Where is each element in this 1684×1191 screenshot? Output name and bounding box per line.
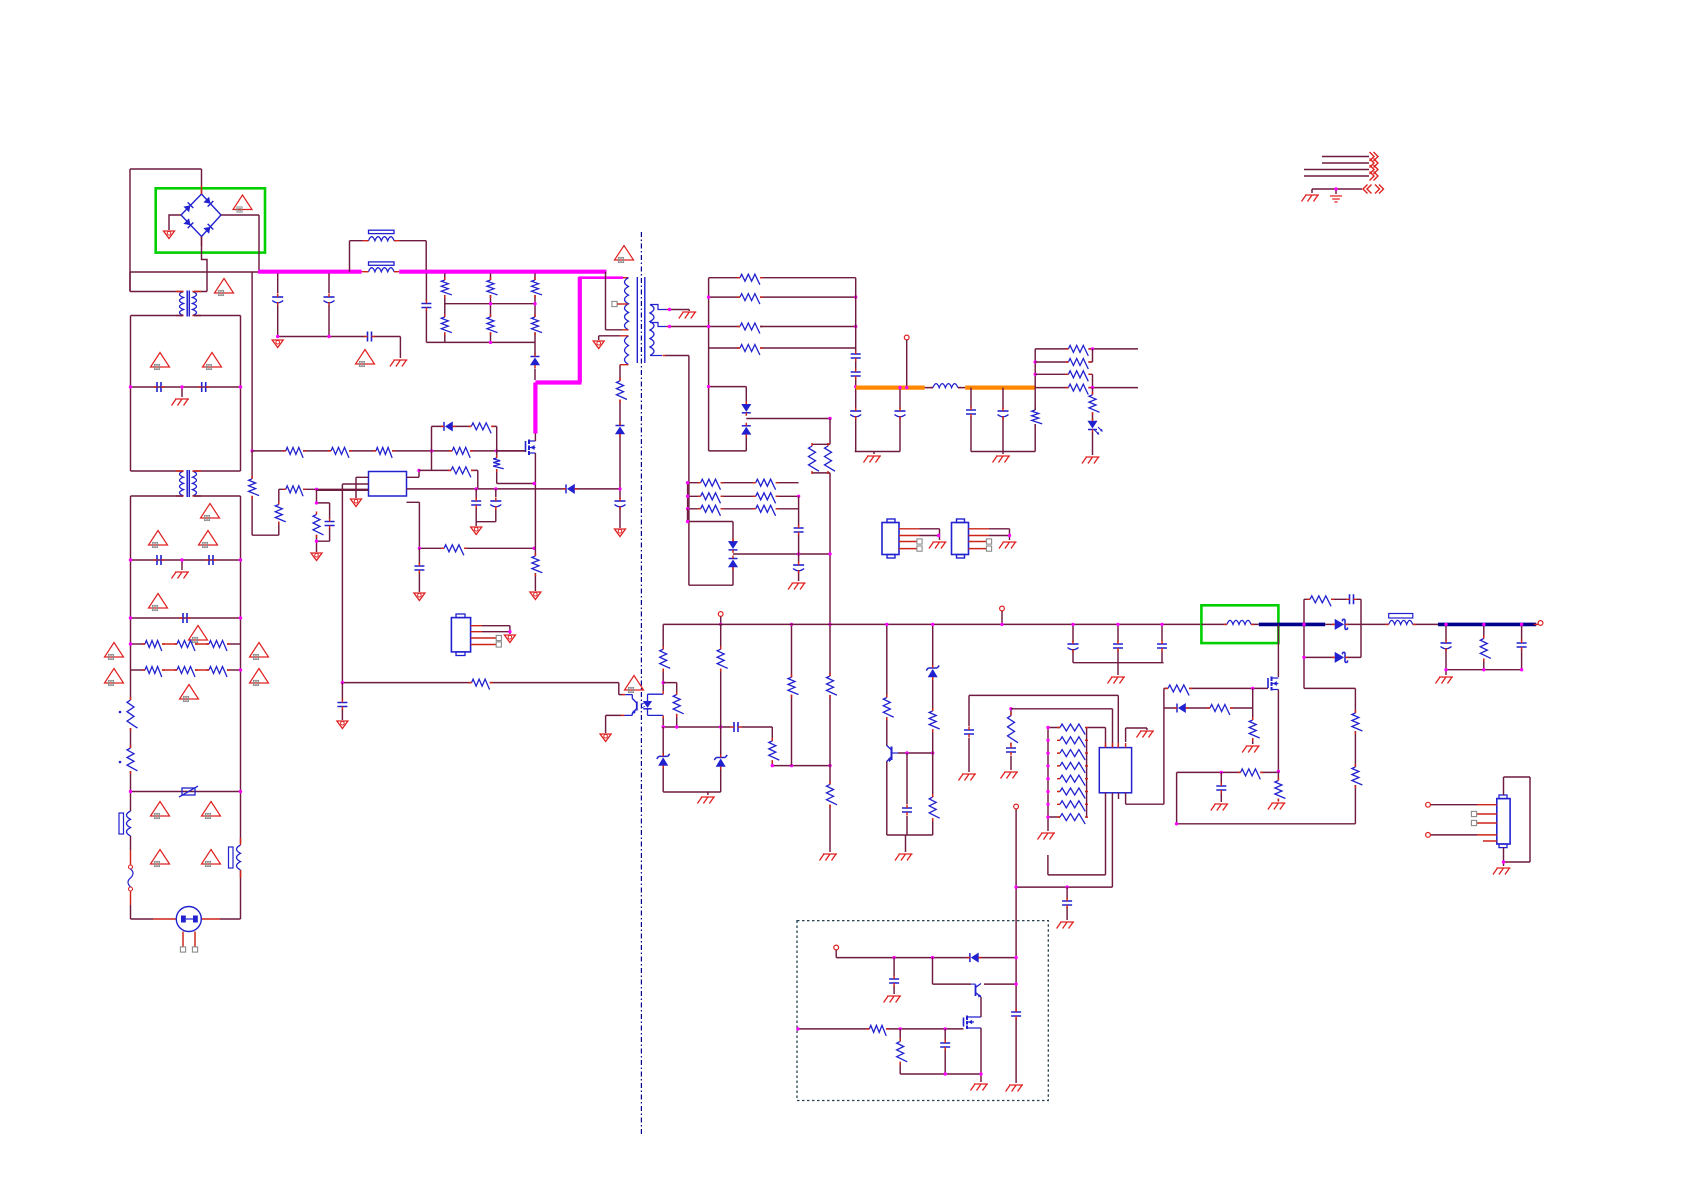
junction dot bus x426	[425, 270, 428, 273]
capacitor x1221	[1216, 786, 1226, 790]
warning triangle row1 right outside	[250, 643, 269, 658]
wire orange gap	[925, 387, 966, 389]
wire divider column 1	[444, 272, 446, 343]
wire bulk bottom line	[278, 337, 401, 359]
warning triangle box2 left	[149, 531, 168, 546]
diode standby	[969, 953, 971, 962]
warning triangle row1 left outside	[105, 643, 124, 658]
junction dot x830 y418	[828, 417, 831, 420]
warning triangle box1 left	[151, 353, 170, 368]
wire rung3 right	[760, 326, 856, 328]
blue dot left b	[119, 761, 122, 764]
junction dots y765	[771, 764, 774, 767]
junction dot y470	[417, 469, 420, 472]
resistor left rail upper	[127, 700, 138, 728]
wire final filter	[1446, 624, 1522, 675]
inductor L bypass top	[369, 237, 395, 241]
twin parallel resistors x820	[812, 419, 830, 473]
resistor row1 c	[209, 641, 227, 652]
junction dots y1074	[944, 1072, 947, 1075]
resistor gate2 pulldown	[1249, 720, 1260, 738]
capacitor CY row2 left	[157, 555, 161, 565]
resistor rung3	[740, 323, 760, 334]
wire U1 pin right3	[407, 502, 420, 548]
resistor fb x830 upper	[827, 676, 838, 695]
polarized capacitor bulk mid	[324, 296, 335, 298]
wire out row1 y348	[1035, 348, 1138, 350]
off-page wire 3	[1304, 169, 1369, 171]
wire Q1 source	[534, 453, 536, 548]
junction dots divider	[443, 270, 446, 273]
wire row y887	[1016, 886, 1112, 888]
wire U1 pin left2 long	[342, 484, 368, 682]
wire opto anode right	[662, 683, 664, 691]
wire bridge left to ground	[169, 215, 181, 230]
resistor fb chain b	[1352, 767, 1363, 785]
connector CN-A	[882, 523, 899, 555]
resistor lrung3 a	[701, 505, 721, 516]
wire ctrl x1011	[1010, 709, 1012, 770]
off-page wire 2	[1322, 162, 1369, 164]
wire U4 bottom pins	[1048, 793, 1164, 887]
wire x1176 vertical	[1176, 772, 1178, 823]
wire U1 pin left3	[317, 489, 369, 491]
chassis ground cap row2	[172, 572, 190, 579]
chassis ground cap row1	[172, 399, 190, 406]
wire x1016 long vertical	[1015, 809, 1017, 1083]
varistor RV1	[182, 788, 195, 795]
wire opto emitter ground	[606, 715, 621, 733]
polarized capacitor vcc b	[490, 500, 501, 502]
wire standby base row	[933, 958, 1017, 985]
output pin circle x906	[904, 335, 909, 340]
CN2 long wire pin1	[1431, 804, 1478, 806]
polarized capacitor out b	[895, 410, 906, 412]
wire lrung2	[688, 495, 799, 497]
capacitor CX row1 left	[157, 382, 161, 392]
wire aux chain	[619, 365, 621, 528]
zener Z1	[662, 727, 664, 792]
junction dots y548	[418, 547, 421, 550]
signal ground vcc	[471, 527, 482, 535]
navy thick segment 2	[1438, 623, 1536, 627]
junction dot aux	[618, 487, 621, 490]
wire bridge right output	[221, 215, 259, 271]
off-page wire 4	[1304, 175, 1369, 177]
chassis ground x830	[820, 854, 838, 861]
wire lrung3	[688, 508, 799, 510]
wire out row3 y374	[1035, 374, 1092, 387]
wire reg cap x907	[906, 753, 908, 835]
capacitor series a x855	[851, 354, 861, 358]
blue dot left a	[119, 711, 122, 714]
pin circle x1002	[1000, 606, 1005, 611]
resistor fb x676	[673, 695, 684, 714]
chassis ground x1011	[1001, 772, 1019, 779]
junction dot x906	[905, 386, 908, 389]
capacitor snubber2	[1350, 594, 1354, 604]
off-page ground wire	[1312, 189, 1362, 194]
resistor divider bottom 3	[532, 317, 543, 333]
wire varistor row	[131, 791, 241, 793]
wire cap trio	[1073, 624, 1164, 675]
chassis ground CN-A	[929, 542, 947, 549]
wire rung T1 bottom	[131, 315, 241, 317]
warning triangle opto	[625, 676, 644, 691]
wire x252 lower loop	[252, 451, 286, 535]
wire rail x687 lower	[687, 483, 689, 522]
warning triangle box2 right	[199, 531, 218, 546]
transformer T3 main	[625, 278, 629, 330]
resistor row451 b	[331, 447, 349, 458]
green highlight box output	[1201, 605, 1278, 643]
transistor Q regulator	[891, 747, 893, 761]
wire out caps c d	[971, 388, 1035, 454]
zener regulator	[926, 666, 939, 671]
wire standby row y957	[836, 957, 1016, 959]
capacitor CX row3	[183, 613, 187, 623]
AC plug J1	[176, 907, 201, 932]
diode snubber to drain	[531, 356, 540, 358]
capacitor out c	[966, 410, 976, 414]
junction dot out row4	[1091, 386, 1094, 389]
CN2 pin wires	[1477, 805, 1497, 841]
capacitor x329	[325, 522, 335, 526]
wire aux winding top to ground	[599, 336, 620, 340]
resistor divider bottom 1	[441, 317, 452, 333]
junction dot tap2	[668, 325, 671, 328]
chassis ground gate2	[1242, 746, 1260, 753]
earth ground off-page	[1330, 196, 1342, 202]
off-page wire 1	[1322, 156, 1369, 158]
resistor lrung2 a	[701, 493, 721, 504]
junction dot x1011	[1009, 707, 1012, 710]
junction dot bus x791	[790, 623, 793, 626]
wire secondary tap3	[650, 355, 662, 357]
wire fb divider row y772	[1177, 771, 1279, 773]
secondary bus y624	[663, 623, 1438, 625]
resistor row451 c	[376, 447, 392, 458]
pin circle x1016	[1014, 804, 1019, 809]
resistor x278 vertical	[275, 505, 286, 522]
wire x342 cap ground	[341, 683, 343, 720]
junction dots y887	[1014, 885, 1017, 888]
wire gate2 pulldown	[1252, 708, 1254, 744]
chassis ground y360	[390, 360, 408, 367]
capacitor x1067	[1062, 901, 1072, 905]
pin circle x720	[718, 612, 723, 617]
junction dot bus x720	[719, 623, 722, 626]
junction dots y727	[662, 725, 665, 728]
fuse F1	[129, 865, 133, 869]
wire gate2 left rail	[1163, 688, 1165, 804]
connector CN-B	[952, 523, 969, 555]
junction dots cap row3	[129, 616, 132, 619]
junction dot x252 row451	[250, 449, 253, 452]
wire standby source row	[900, 1028, 981, 1082]
capacitor reg x907	[902, 808, 912, 812]
resistor row1 b	[177, 641, 195, 652]
signal ground aux cap	[615, 529, 626, 537]
wire x316 RC to ground	[317, 489, 330, 552]
resistor fb x663	[660, 649, 671, 668]
wire standby bjt emitter	[980, 997, 982, 1016]
capacitor CY row2 right	[209, 555, 213, 565]
junction dots diode block	[1302, 623, 1305, 626]
wire standby gate row	[798, 1028, 964, 1030]
resistor Q2 sense	[1275, 781, 1286, 799]
resistor row451 a	[286, 447, 303, 458]
resistor rung2	[740, 294, 760, 305]
transistor standby	[975, 985, 977, 997]
resistor lrung1 b	[756, 479, 776, 490]
capacitor x342	[337, 703, 347, 707]
resistor lrung1 a	[701, 479, 721, 490]
capacitor ctrl x969	[964, 730, 974, 734]
wire polcap branch b	[899, 388, 901, 452]
connector CN-A squares	[917, 539, 922, 544]
optocoupler U3	[636, 702, 638, 711]
TVS diode pair upper	[709, 387, 747, 451]
CN2 pin1 circle	[1426, 802, 1431, 807]
polarized capacitor x855	[850, 410, 861, 412]
polarized capacitor aux	[615, 500, 626, 502]
wire Q1 drain stub	[534, 434, 536, 442]
resistor standby gate	[869, 1025, 886, 1036]
junction dots rung3	[707, 325, 710, 328]
junction dot x855 orange	[854, 385, 857, 388]
MOSFET Q2 load switch	[1267, 678, 1269, 688]
wire rail x708 upper	[708, 278, 710, 451]
IC U1 PWM controller	[369, 472, 407, 497]
warning triangle lower right	[202, 850, 221, 865]
wire tvs middle row	[746, 418, 830, 420]
junction dots bulk bottom	[276, 335, 279, 338]
plug prong wires	[183, 932, 195, 948]
chassis ground Q3	[971, 1084, 989, 1091]
wire ctrl cap x969	[969, 695, 1118, 772]
CN2 pin4 circle	[1426, 833, 1431, 838]
capacitor standby gate	[940, 1043, 950, 1047]
resistor fb chain a	[1352, 713, 1363, 731]
wire gate divider x496	[496, 451, 498, 484]
output pin circle	[1538, 621, 1543, 626]
diode rect top	[1335, 619, 1344, 629]
warning triangle above T3	[615, 246, 634, 261]
resistor gate2 b	[1210, 705, 1230, 716]
warning triangle near T1	[215, 279, 234, 294]
wire rung T2 top	[131, 470, 241, 472]
wire fb x676 branch	[663, 683, 677, 727]
IC U4 secondary controller	[1099, 748, 1131, 793]
connector CN-B pins	[969, 529, 990, 549]
wire fb x772	[771, 727, 773, 766]
resistor lrung3 b	[756, 505, 776, 516]
inductor left rail	[127, 811, 131, 836]
junction dots x316	[315, 501, 318, 504]
resistor fb x791	[788, 677, 799, 694]
chassis ground off-page	[1302, 195, 1320, 202]
wire fb x791	[791, 624, 793, 765]
signal ground U1	[351, 499, 362, 507]
wire x830 down to bus	[829, 473, 831, 625]
resistor out row2	[1068, 359, 1088, 370]
junction dots cap row2	[129, 558, 132, 561]
MOSFET Q3 standby	[963, 1018, 965, 1027]
junction dot res row2	[239, 668, 242, 671]
chassis ground out ab	[864, 456, 882, 463]
plug prong square left	[180, 947, 185, 952]
resistor lrung2 b	[756, 493, 776, 504]
signal ground opto	[600, 734, 611, 742]
connector CN-A dot	[937, 534, 940, 537]
polarized capacitor final a	[1441, 642, 1452, 644]
junction dot lrung1	[686, 481, 689, 484]
wire gate drive row y683	[342, 683, 618, 695]
junction dots mid row	[797, 552, 800, 555]
signal ground x316	[311, 553, 322, 561]
thin magenta primary feed	[579, 276, 623, 279]
junction dot out row1	[1091, 347, 1094, 350]
wire diode block	[1304, 599, 1361, 688]
wire snubber cap branch	[426, 272, 444, 343]
wire diode pair mid row	[733, 553, 830, 555]
wire diode row y426	[432, 426, 497, 451]
junction dot bus x830	[828, 623, 831, 626]
wire ctrl row to IC	[1011, 709, 1113, 748]
resistor row2 c	[209, 667, 227, 678]
wire rung4 y348	[709, 347, 856, 349]
warning triangle box1 right	[203, 353, 222, 368]
wire reg bottom y835	[887, 835, 933, 852]
junction dots y489	[475, 487, 478, 490]
resistor out row3	[1068, 371, 1088, 382]
diode rect bottom	[1335, 652, 1344, 662]
CN2 squares	[1471, 811, 1476, 816]
resistor left rail lower	[127, 748, 138, 771]
wire standby pulldown R	[899, 1029, 901, 1074]
wire secondary tap2	[650, 323, 667, 327]
wire fb x830 lower	[829, 624, 831, 852]
wire rail x798 caps	[798, 496, 800, 581]
wire bulk cap left drop	[277, 274, 279, 337]
warning triangle under row2	[149, 594, 168, 609]
wire divider column 3	[534, 272, 536, 343]
wire vcc caps	[476, 489, 496, 526]
wire res row1	[131, 643, 146, 645]
capacitor CX row1 right	[202, 382, 206, 392]
resistor row683	[472, 679, 490, 690]
wire sense R ground	[534, 548, 536, 591]
junction dot out b	[898, 386, 901, 389]
resistor gate x496	[493, 458, 504, 469]
wire bypass loop over bus	[350, 241, 427, 272]
wire regulator x932	[932, 624, 934, 835]
capacitor sense	[414, 566, 424, 570]
chassis ground final	[1436, 677, 1454, 684]
junction dot lrung3	[686, 507, 689, 510]
wire sense row y548	[419, 547, 535, 549]
off-page chevron 1	[1370, 152, 1379, 161]
chassis ground standby out	[1006, 1085, 1024, 1092]
wire fb chain x1355	[1354, 688, 1356, 823]
junction dot res row1	[129, 642, 132, 645]
warning triangle box2 top	[201, 504, 220, 519]
connector CN1	[451, 618, 470, 652]
wire cap x1221	[1220, 772, 1222, 802]
green highlight box around bridge	[156, 188, 265, 252]
junction dot x1002	[1000, 623, 1003, 626]
warning triangle row2 right outside	[250, 669, 269, 684]
wire rung1 y277	[709, 277, 856, 279]
wire standby cap x894	[893, 958, 895, 994]
chassis ground CN2	[1493, 868, 1511, 875]
junction dot gate row edge	[796, 1027, 799, 1030]
pin circle standby	[834, 945, 839, 950]
junction dots row451	[430, 449, 433, 452]
resistor fb x720	[717, 649, 728, 668]
resistor row489	[286, 486, 303, 497]
diode pair lower	[688, 509, 733, 585]
capacitor fb y727	[734, 722, 738, 732]
chassis ground CN-B	[999, 542, 1017, 549]
junction dot bus x932	[931, 623, 934, 626]
chassis ground ladder	[1038, 833, 1056, 840]
resistor LED	[1089, 395, 1100, 412]
junction dot fb A	[662, 681, 665, 684]
resistor divider top 1	[441, 280, 452, 295]
signal ground x342	[337, 721, 348, 729]
resistor ladder bank	[1048, 728, 1106, 832]
resistor rung1	[740, 274, 760, 285]
wire snubber top	[1304, 598, 1361, 600]
CN1 squares	[496, 635, 501, 640]
wire diode to magenta corner	[534, 342, 536, 380]
warning triangle above res row	[189, 626, 208, 641]
signal ground aux	[593, 341, 604, 349]
capacitor x798	[794, 528, 804, 532]
connector CN-B squares	[986, 539, 991, 544]
chassis ground Q2 sense	[1268, 803, 1286, 810]
capacitor trio b	[1113, 644, 1123, 648]
off-page chevron 3	[1370, 165, 1379, 174]
wire Q1 gate	[497, 450, 526, 452]
wire U4 gnd right	[1126, 728, 1147, 742]
warning triangle lower left	[151, 850, 170, 865]
junction dots rung2	[707, 295, 710, 298]
resistor fb x772	[769, 741, 780, 760]
resistor row470	[451, 467, 471, 478]
wire row y451	[252, 450, 525, 452]
CN1 pin wires	[471, 626, 496, 645]
resistor bleeder x1035	[1032, 410, 1043, 424]
resistor ctrl x1011	[1008, 716, 1019, 743]
inductor in green box	[1227, 620, 1251, 624]
CN1 dot	[508, 630, 511, 633]
polarized capacitor bulk left	[272, 296, 283, 298]
wire standby out cap	[1015, 1010, 1017, 1012]
junction dot source	[533, 482, 536, 485]
junction dots varistor row	[129, 790, 132, 793]
wire secondary tap1	[650, 305, 667, 310]
wire regulator x886	[886, 624, 888, 835]
resistor sense row	[444, 545, 464, 556]
capacitor standby out	[1011, 1012, 1021, 1016]
capacitor standby x894	[889, 979, 899, 983]
chassis ground x1221	[1211, 804, 1229, 811]
isolation dashed line	[640, 232, 642, 1134]
polarized capacitor x798	[793, 564, 804, 566]
